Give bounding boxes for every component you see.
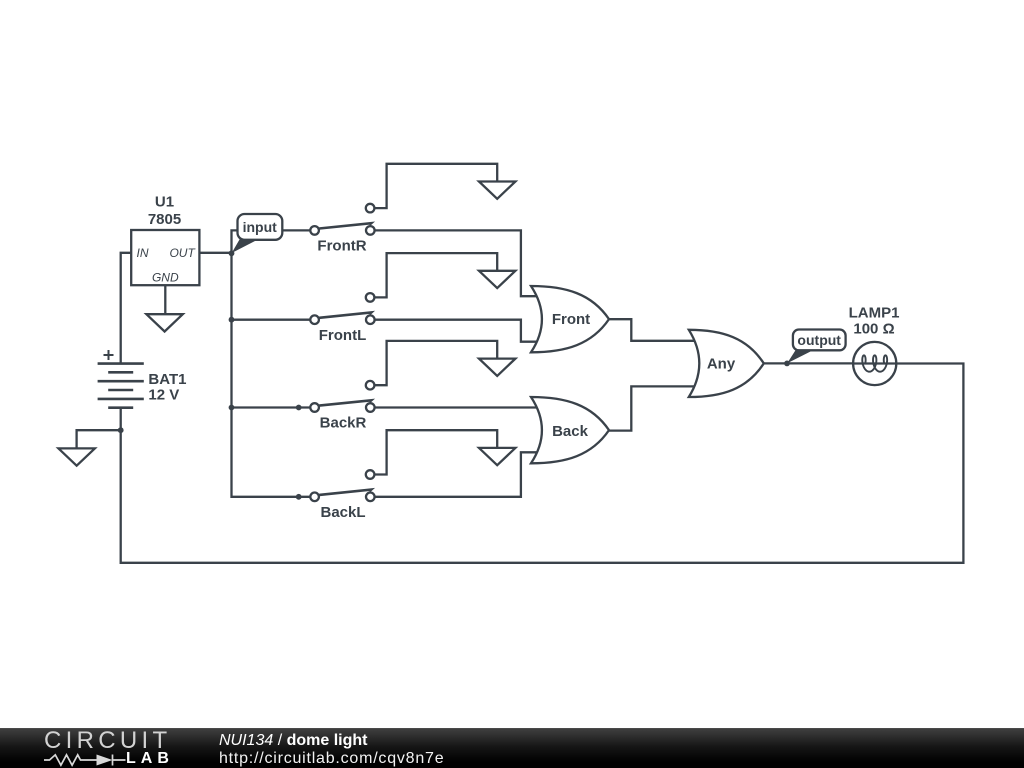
svg-text:BackL: BackL [320, 504, 365, 521]
svg-text:U1: U1 [155, 194, 174, 211]
svg-text:BAT1: BAT1 [148, 371, 186, 388]
svg-text:BackR: BackR [320, 415, 367, 432]
svg-text:7805: 7805 [148, 211, 181, 228]
svg-text:OUT: OUT [169, 246, 196, 260]
svg-text:FrontR: FrontR [317, 238, 366, 255]
svg-text:LAMP1: LAMP1 [849, 305, 900, 322]
svg-text:12 V: 12 V [148, 387, 179, 404]
svg-text:Front: Front [552, 311, 590, 328]
svg-text:GND: GND [152, 271, 179, 285]
svg-text:input: input [243, 219, 278, 235]
svg-text:IN: IN [137, 246, 149, 260]
svg-text:FrontL: FrontL [319, 327, 366, 344]
svg-text:Back: Back [552, 423, 589, 440]
svg-text:Any: Any [707, 356, 736, 373]
svg-text:output: output [797, 332, 841, 348]
svg-text:100 Ω: 100 Ω [853, 321, 894, 338]
